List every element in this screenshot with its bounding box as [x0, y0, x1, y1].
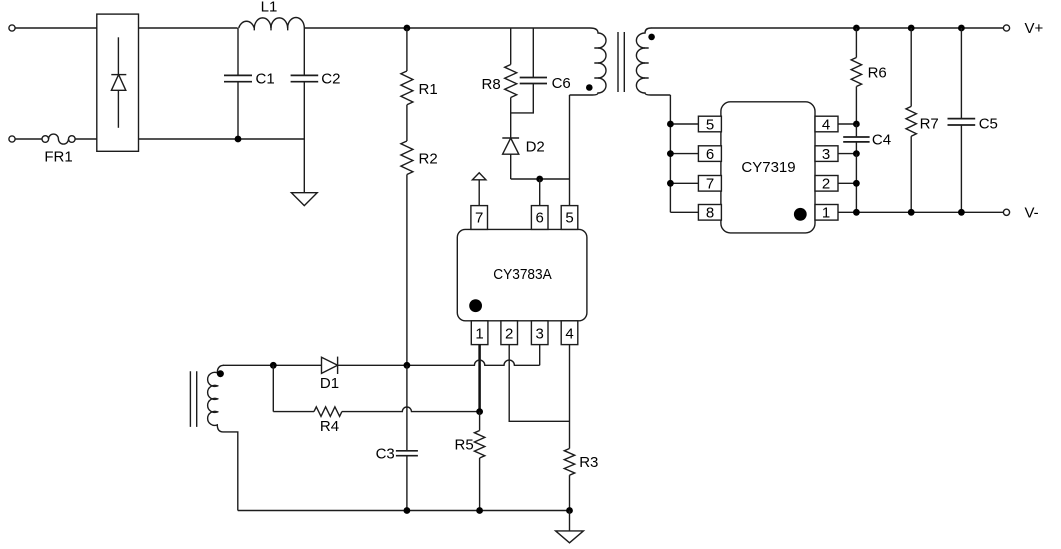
U2 pin 1 — [815, 205, 838, 222]
op-amp U2 CY7319 body — [721, 102, 815, 233]
junction — [853, 25, 860, 32]
terminal V- — [1003, 209, 1009, 215]
svg-text:R6: R6 — [868, 65, 887, 82]
U2 pin 4 — [815, 116, 838, 133]
wire — [510, 28, 512, 65]
inductor L1 — [239, 18, 305, 29]
transformer T2 core — [190, 371, 196, 427]
svg-text:1: 1 — [822, 205, 830, 222]
svg-text:V+: V+ — [1025, 20, 1044, 37]
wire pin8L — [670, 211, 699, 213]
U2 pin 7 — [698, 176, 721, 193]
capacitor C3 — [396, 365, 418, 510]
junction node A — [404, 25, 411, 32]
resistor R1 — [401, 71, 413, 105]
svg-text:R1: R1 — [419, 81, 438, 98]
diode D2 — [502, 138, 519, 179]
capacitor C5 — [948, 28, 976, 212]
wire — [406, 105, 408, 141]
U2 pin 5 — [698, 116, 721, 133]
junction — [404, 507, 411, 514]
junction — [270, 362, 277, 369]
junction — [667, 121, 674, 128]
svg-text:C6: C6 — [552, 75, 571, 92]
svg-text:R5: R5 — [455, 437, 474, 454]
junction — [235, 136, 242, 143]
svg-text:4: 4 — [822, 116, 830, 133]
wire — [910, 136, 912, 212]
wire — [304, 27, 590, 29]
U2 pin 6 — [698, 146, 721, 163]
svg-text:7: 7 — [706, 176, 714, 193]
wire — [569, 475, 571, 510]
svg-text:5: 5 — [706, 116, 714, 133]
wire secondary to CY7319 pins — [669, 95, 671, 212]
supply arrow node — [472, 173, 486, 206]
junction — [667, 180, 674, 187]
junction — [853, 209, 860, 216]
U2 pin 2 — [815, 176, 838, 193]
wire pin1 bold — [478, 345, 481, 412]
transformer T1 primary winding — [570, 28, 607, 95]
junction — [908, 25, 915, 32]
capacitor C4 — [843, 124, 869, 154]
ground — [291, 193, 317, 206]
wire — [855, 87, 857, 125]
wire D1 to pin3 with hops — [338, 360, 540, 365]
wire — [75, 138, 97, 140]
U1 pin 2 — [501, 321, 518, 345]
junction — [476, 507, 483, 514]
svg-text:1: 1 — [475, 326, 483, 343]
wire pin7L — [670, 182, 699, 184]
svg-text:8: 8 — [706, 205, 714, 222]
junction — [958, 25, 965, 32]
transformer T2 polarity dot — [217, 370, 224, 377]
junction — [958, 209, 965, 216]
svg-text:D2: D2 — [526, 139, 545, 156]
junction — [853, 121, 860, 128]
wire pin6L — [670, 153, 699, 155]
svg-text:3: 3 — [822, 146, 830, 163]
wire V+ rail — [651, 27, 1003, 29]
wire — [406, 28, 408, 71]
ground — [556, 511, 584, 543]
svg-text:R3: R3 — [579, 454, 598, 471]
capacitor C6 — [511, 28, 547, 113]
svg-text:7: 7 — [475, 210, 483, 227]
wire — [15, 138, 42, 140]
wire — [139, 27, 238, 29]
svg-text:C1: C1 — [256, 71, 275, 88]
svg-text:C5: C5 — [979, 116, 998, 133]
junction — [566, 507, 573, 514]
U1 pin 1 — [471, 321, 488, 345]
U1 pin 5 — [561, 206, 578, 230]
svg-text:C2: C2 — [321, 71, 340, 88]
junction — [476, 408, 483, 415]
svg-text:L1: L1 — [261, 0, 278, 16]
wire — [855, 154, 857, 213]
wire pin3 — [539, 345, 541, 366]
wire — [511, 178, 570, 180]
U1 pin 6 — [531, 206, 548, 230]
svg-text:D1: D1 — [320, 375, 339, 392]
wire R4 branch — [272, 365, 274, 411]
resistor R6 — [851, 58, 861, 87]
transformer T1 core — [618, 32, 624, 92]
svg-text:C4: C4 — [872, 132, 891, 149]
junction — [853, 150, 860, 157]
input terminal top — [9, 25, 15, 31]
wire pin4R — [838, 123, 856, 125]
transformer T2 winding — [208, 365, 238, 510]
svg-text:R7: R7 — [920, 116, 939, 133]
input terminal bottom — [9, 136, 15, 142]
svg-text:4: 4 — [565, 326, 573, 343]
capacitor C2 — [291, 28, 319, 193]
wire pin5L — [670, 123, 699, 125]
svg-text:R4: R4 — [320, 418, 339, 435]
wire pin4 to R3 — [569, 345, 571, 449]
svg-text:3: 3 — [536, 326, 544, 343]
svg-text:5: 5 — [565, 210, 573, 227]
svg-text:2: 2 — [505, 326, 513, 343]
wire — [15, 27, 97, 29]
wire — [223, 364, 322, 366]
transformer T1 secondary winding — [636, 28, 670, 95]
U2 pin 3 — [815, 146, 838, 163]
wire pin3R — [838, 153, 856, 155]
wire — [139, 138, 305, 140]
svg-text:R8: R8 — [482, 76, 501, 93]
svg-text:6: 6 — [706, 146, 714, 163]
junction — [404, 362, 411, 369]
wire pin2R — [838, 182, 856, 184]
capacitor C1 — [224, 28, 252, 139]
U1 pin 7 — [471, 206, 488, 230]
bridge rectifier — [97, 14, 139, 151]
svg-text:6: 6 — [536, 210, 544, 227]
resistor R8 — [505, 65, 517, 98]
svg-text:2: 2 — [822, 176, 830, 193]
junction — [853, 180, 860, 187]
svg-text:V-: V- — [1025, 204, 1039, 221]
transformer T1 secondary polarity dot — [648, 34, 655, 41]
svg-text:CY7319: CY7319 — [741, 159, 795, 176]
junction — [667, 150, 674, 157]
junction — [908, 209, 915, 216]
svg-text:C3: C3 — [376, 446, 395, 463]
diode D1 — [322, 357, 338, 374]
wire V- rail — [838, 211, 1003, 213]
wire — [855, 28, 857, 58]
svg-text:R2: R2 — [419, 151, 438, 168]
resistor R3 — [564, 449, 574, 476]
wire — [406, 175, 408, 366]
wire pin2 — [509, 345, 569, 422]
svg-text:CY3783A: CY3783A — [493, 266, 552, 283]
wire bottom rail — [238, 510, 570, 512]
wire — [479, 412, 481, 511]
wire pin6 stub — [539, 179, 541, 206]
fuse FR1 — [42, 134, 75, 144]
U1 pin 4 — [561, 321, 578, 345]
wire — [510, 98, 512, 139]
U2 pin 8 — [698, 205, 721, 222]
terminal V+ — [1003, 25, 1009, 31]
resistor R2 — [401, 141, 413, 175]
transformer T1 primary polarity dot — [586, 84, 593, 91]
resistor R4 — [314, 407, 342, 417]
svg-text:FR1: FR1 — [44, 149, 72, 166]
wire — [910, 28, 912, 106]
resistor R7 — [906, 106, 916, 136]
U1 pin 3 — [531, 321, 548, 345]
junction — [536, 176, 543, 183]
wire R4 to R5 with hop — [342, 407, 480, 412]
wire primary bottom to pin5 — [569, 95, 571, 206]
resistor R5 — [474, 431, 484, 459]
controller U1 CY3783A body — [457, 229, 587, 320]
